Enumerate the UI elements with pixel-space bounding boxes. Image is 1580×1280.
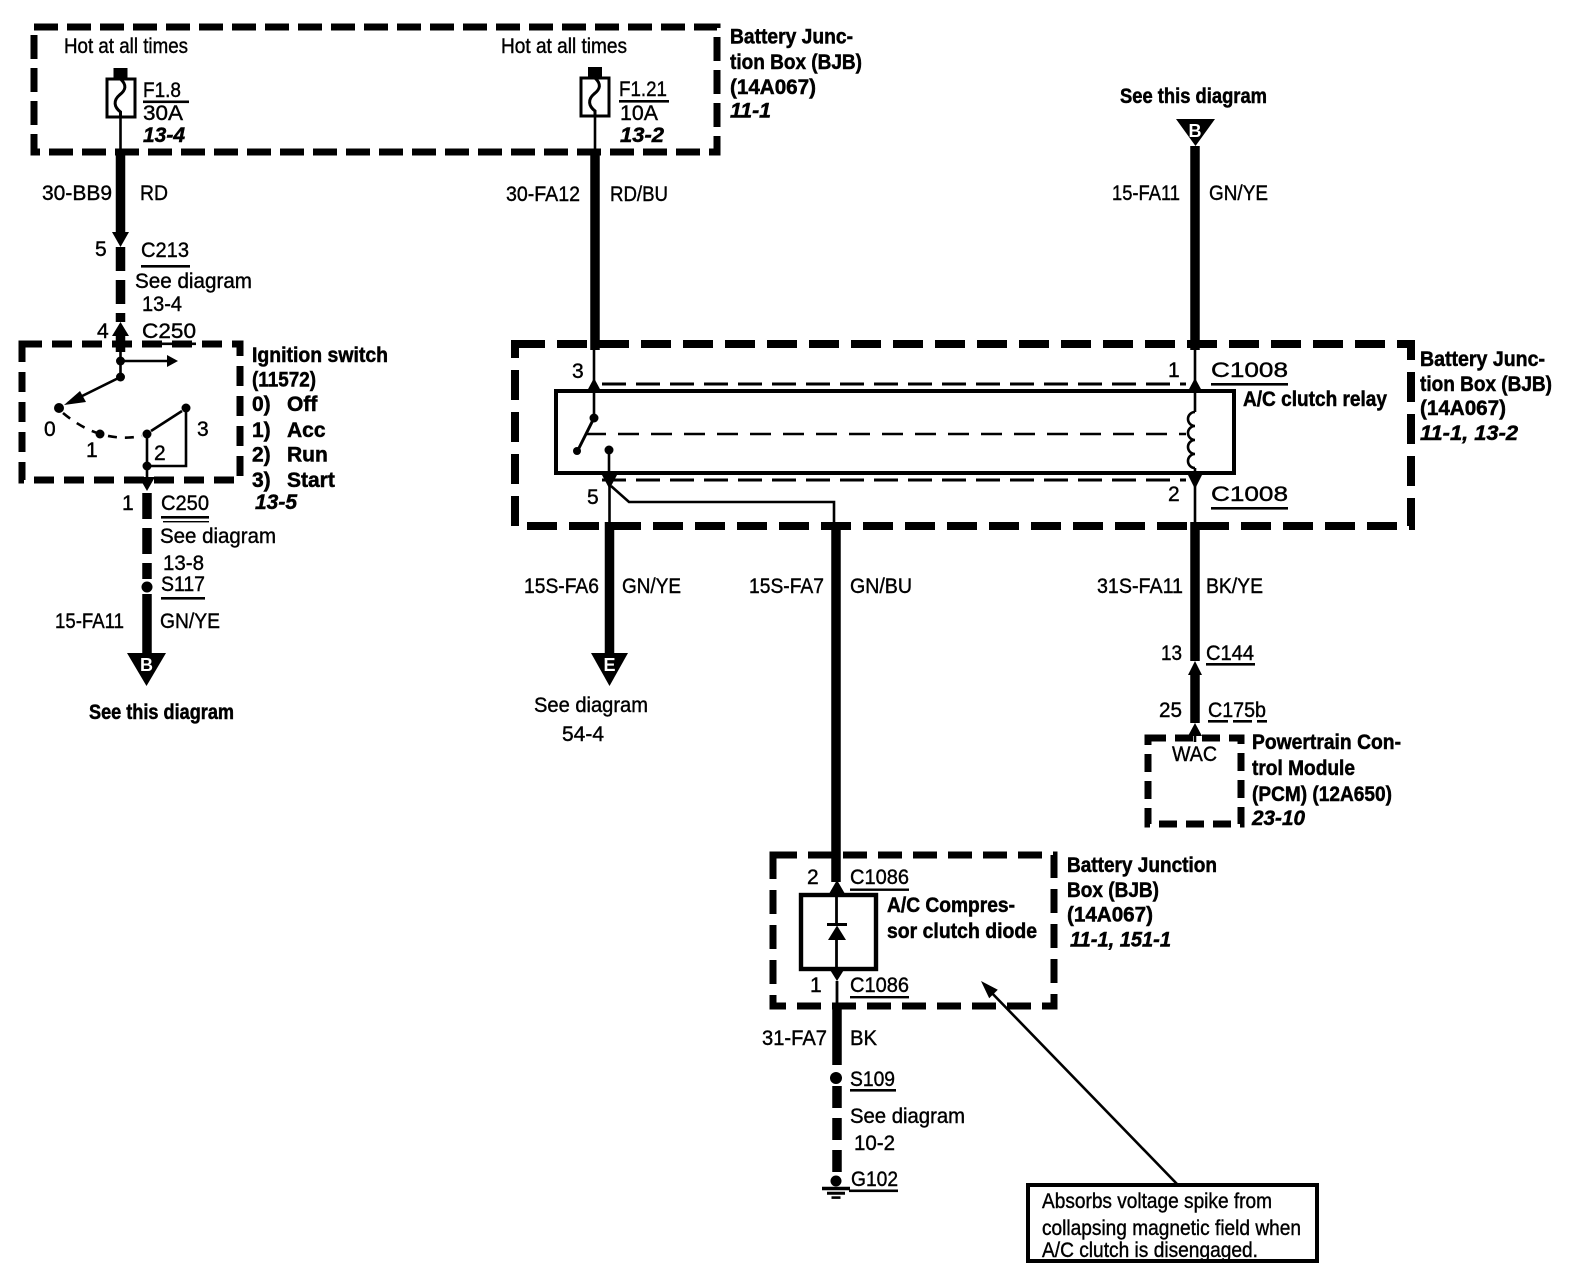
svg-text:C144: C144: [1206, 642, 1254, 665]
svg-text:3: 3: [197, 418, 209, 441]
powertrain control module WAC dashed box: [1148, 738, 1241, 824]
svg-text:13-2: 13-2: [620, 124, 664, 147]
connector C175b pin 25: [1188, 723, 1202, 736]
svg-text:A/C Compres-: A/C Compres-: [887, 894, 1015, 917]
wire terminal 3 down and across: [147, 411, 186, 466]
svg-text:Start: Start: [287, 469, 335, 492]
svg-text:collapsing magnetic field when: collapsing magnetic field when: [1042, 1217, 1301, 1240]
wire S109 to G102 (dashed thick): [832, 1086, 842, 1174]
wire C250 to S117 (dashed thick): [142, 493, 152, 579]
svg-text:11-1, 13-2: 11-1, 13-2: [1420, 422, 1518, 445]
svg-text:13-4: 13-4: [142, 293, 182, 316]
pivot node: [116, 373, 125, 382]
svg-text:4: 4: [97, 320, 109, 343]
connector C250 pin 4: [112, 322, 129, 336]
wire C213 to C250 (dashed thick): [116, 247, 126, 322]
svg-text:23-10: 23-10: [1251, 807, 1305, 830]
svg-text:B: B: [1189, 121, 1202, 141]
svg-text:54-4: 54-4: [562, 723, 604, 746]
connector C250 pin 1 (exit arrow): [139, 477, 155, 491]
svg-text:C175b: C175b: [1208, 699, 1266, 722]
svg-text:2: 2: [807, 866, 819, 889]
svg-text:5: 5: [95, 238, 107, 261]
svg-text:B: B: [140, 655, 153, 675]
svg-text:3: 3: [572, 360, 584, 383]
svg-text:See diagram: See diagram: [534, 694, 648, 717]
terminal 3: [182, 404, 191, 413]
diode symbol: [835, 895, 838, 924]
svg-text:Ignition switch: Ignition switch: [252, 344, 388, 367]
svg-text:Absorbs voltage spike from: Absorbs voltage spike from: [1042, 1190, 1272, 1213]
svg-text:C250: C250: [142, 320, 196, 343]
svg-text:WAC: WAC: [1172, 743, 1217, 766]
connector C1008 dashed line (top): [602, 383, 1186, 386]
svg-text:See diagram: See diagram: [160, 525, 276, 548]
svg-text:5: 5: [587, 486, 599, 509]
terminal 0: [54, 403, 64, 413]
svg-text:G102: G102: [851, 1168, 898, 1191]
svg-text:Hot at all times: Hot at all times: [64, 35, 188, 58]
svg-text:1: 1: [86, 439, 98, 462]
svg-text:(14A067): (14A067): [1420, 397, 1506, 420]
svg-text:1): 1): [252, 419, 271, 442]
svg-text:F1.21: F1.21: [619, 78, 667, 101]
wire 30-BB9 RD (thick): [116, 149, 126, 233]
relay switch contacts: [593, 391, 596, 418]
wire 15-FA11 GN/YE (right, thick): [1190, 146, 1200, 350]
svg-text:See diagram: See diagram: [135, 270, 252, 293]
relay pin 3: [593, 349, 596, 381]
svg-text:Battery Junc-: Battery Junc-: [730, 26, 853, 49]
svg-text:(14A067): (14A067): [730, 76, 816, 99]
svg-text:C213: C213: [141, 239, 189, 262]
svg-text:13-8: 13-8: [163, 552, 204, 575]
A/C compressor clutch diode box: [801, 895, 876, 969]
svg-text:sor clutch diode: sor clutch diode: [887, 920, 1037, 943]
relay pin 1 / connector C1008: [1194, 349, 1197, 381]
svg-text:1: 1: [122, 492, 134, 515]
svg-text:Powertrain Con-: Powertrain Con-: [1252, 731, 1401, 754]
connector C1086 pin 1: [830, 969, 845, 981]
svg-text:S117: S117: [161, 573, 205, 596]
svg-text:Battery Junc-: Battery Junc-: [1420, 348, 1545, 371]
svg-text:GN/BU: GN/BU: [850, 575, 912, 598]
terminal 1: [96, 430, 105, 439]
wire 15S-FA7 GN/BU (thick): [831, 522, 841, 882]
off-page arrow B (bottom left): [127, 653, 166, 686]
ground G102: [831, 1176, 842, 1187]
svg-text:15S-FA7: 15S-FA7: [749, 575, 824, 598]
wire fuse F1.8 output: [119, 117, 122, 153]
wire pin 5 branch to 15S-FA7: [611, 486, 834, 526]
svg-text:31-FA7: 31-FA7: [762, 1027, 827, 1050]
battery junction box (BJB) relay dashed box: [515, 344, 1411, 526]
battery junction box (BJB) top dashed box: [34, 27, 717, 152]
svg-text:C1086: C1086: [850, 974, 909, 997]
svg-text:tion Box (BJB): tion Box (BJB): [730, 51, 862, 74]
relay pin 2 / connector C1008: [1188, 475, 1202, 489]
splice S117: [142, 582, 153, 593]
wire stub into switch: [116, 336, 126, 352]
relay mechanical link (dashed): [585, 433, 1186, 436]
node junction: [143, 462, 152, 471]
svg-text:30-BB9: 30-BB9: [42, 182, 112, 205]
svg-text:15-FA11: 15-FA11: [1112, 182, 1180, 205]
svg-text:2): 2): [252, 444, 271, 467]
wire 31S-FA11 BK/YE (thick): [1190, 522, 1200, 661]
battery junction box (BJB) diode dashed box: [773, 855, 1054, 1006]
svg-text:Off: Off: [287, 393, 318, 416]
svg-text:RD: RD: [140, 182, 168, 205]
svg-text:0: 0: [44, 418, 56, 441]
svg-text:See this diagram: See this diagram: [89, 701, 234, 724]
svg-text:S109: S109: [850, 1068, 895, 1091]
svg-text:See this diagram: See this diagram: [1120, 85, 1267, 108]
wire 31-FA7 BK (thick): [832, 1006, 842, 1065]
svg-text:Battery Junction: Battery Junction: [1067, 854, 1217, 877]
fuse F1.21: [588, 67, 602, 78]
splice S109: [830, 1072, 842, 1084]
callout note box: [1028, 1185, 1317, 1261]
connector C213 pin 5: [112, 232, 129, 247]
connector C144 pin 13: [1188, 661, 1202, 675]
svg-text:C1008: C1008: [1211, 483, 1288, 506]
svg-text:2: 2: [1168, 483, 1180, 506]
svg-text:C1008: C1008: [1211, 359, 1288, 382]
svg-text:15-FA11: 15-FA11: [55, 610, 124, 633]
svg-text:A/C clutch relay: A/C clutch relay: [1243, 388, 1387, 411]
ignition switch dashed box: [22, 344, 240, 480]
off-page arrow B (top right): [1176, 119, 1215, 146]
svg-text:(14A067): (14A067): [1067, 904, 1153, 927]
svg-text:13: 13: [1161, 642, 1182, 665]
wire terminal 2 down: [146, 437, 149, 466]
svg-text:BK/YE: BK/YE: [1206, 575, 1263, 598]
svg-text:1: 1: [1168, 359, 1180, 382]
svg-text:trol Module: trol Module: [1252, 757, 1355, 780]
svg-text:11-1, 151-1: 11-1, 151-1: [1070, 929, 1171, 952]
svg-text:E: E: [603, 655, 615, 675]
wire 30-FA12 RD/BU (thick): [594, 116, 597, 153]
A/C clutch relay box: [556, 391, 1234, 473]
wire 30-FA12 thick run: [590, 149, 600, 350]
svg-text:10A: 10A: [620, 102, 658, 125]
svg-text:GN/YE: GN/YE: [622, 575, 681, 598]
svg-text:Acc: Acc: [287, 419, 326, 442]
connector C1008 dashed line (bottom): [602, 479, 1186, 482]
svg-text:(11572): (11572): [252, 369, 316, 392]
svg-text:1: 1: [810, 974, 822, 997]
svg-text:Box (BJB): Box (BJB): [1067, 879, 1159, 902]
svg-text:(PCM) (12A650): (PCM) (12A650): [1252, 783, 1392, 806]
svg-text:25: 25: [1159, 699, 1182, 722]
svg-text:F1.8: F1.8: [143, 79, 181, 102]
svg-text:13-5: 13-5: [255, 491, 297, 514]
svg-text:Hot at all times: Hot at all times: [501, 35, 627, 58]
svg-text:C250: C250: [161, 492, 209, 515]
svg-text:C1086: C1086: [850, 866, 909, 889]
svg-text:See diagram: See diagram: [850, 1105, 965, 1128]
svg-text:GN/YE: GN/YE: [1209, 182, 1268, 205]
callout arrow to diode: [988, 989, 1177, 1184]
svg-text:tion Box (BJB): tion Box (BJB): [1420, 373, 1552, 396]
svg-text:A/C clutch is disengaged.: A/C clutch is disengaged.: [1042, 1239, 1258, 1262]
wire 15S-FA6 GN/YE (thick): [605, 522, 615, 654]
svg-text:30-FA12: 30-FA12: [506, 183, 580, 206]
svg-text:3): 3): [252, 469, 271, 492]
switch arm to terminal 0: [68, 377, 121, 403]
svg-text:Run: Run: [287, 444, 328, 467]
fuse F1.8: [114, 68, 128, 79]
svg-text:15S-FA6: 15S-FA6: [524, 575, 599, 598]
svg-text:0): 0): [252, 393, 271, 416]
terminal arc (dashed): [63, 413, 142, 438]
svg-text:BK: BK: [850, 1027, 877, 1050]
svg-text:31S-FA11: 31S-FA11: [1097, 575, 1183, 598]
svg-text:30A: 30A: [143, 102, 183, 125]
svg-text:GN/YE: GN/YE: [160, 610, 220, 633]
svg-text:10-2: 10-2: [854, 1132, 895, 1155]
branch arrow right: [121, 360, 168, 363]
svg-text:2: 2: [154, 442, 166, 465]
node junction: [116, 357, 125, 366]
terminal 2: [143, 430, 152, 439]
relay coil: [1194, 391, 1197, 412]
svg-text:RD/BU: RD/BU: [610, 183, 668, 206]
off-page arrow E: [591, 653, 628, 686]
relay pin 5: [602, 475, 617, 489]
svg-text:13-4: 13-4: [143, 124, 185, 147]
svg-text:11-1: 11-1: [730, 100, 771, 123]
wire 15-FA11 GN/YE (thick): [142, 594, 152, 654]
